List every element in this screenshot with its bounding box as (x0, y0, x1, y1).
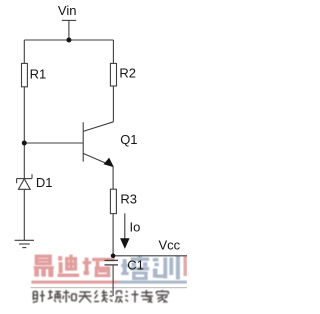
wire below C1 (112, 265, 114, 296)
svg-text:Io: Io (130, 220, 141, 235)
wire top bus (24, 39, 113, 41)
ground (15, 240, 34, 247)
wire Vin drop (68, 20, 70, 40)
wire R3 to output node (112, 214, 114, 256)
resistor R3 (110, 189, 116, 213)
watermark slogan char 天 (79, 292, 92, 303)
node dot Vin junction (66, 38, 71, 43)
capacitor C1 (105, 260, 119, 265)
svg-text:Vin: Vin (58, 3, 77, 18)
resistor R1 (22, 63, 28, 86)
wire right rail upper (112, 40, 114, 63)
watermark char 拓 (wide) (83, 258, 115, 278)
diode D1 (zener) (17, 174, 32, 189)
svg-text:Vcc: Vcc (159, 238, 181, 253)
svg-text:R3: R3 (120, 191, 137, 206)
watermark slogan char 射 (33, 291, 45, 303)
transistor Q1 (83, 122, 113, 167)
watermark slogan char 专 (141, 290, 153, 303)
wire left rail mid (23, 87, 25, 179)
watermark partial char at right edge (184, 256, 188, 276)
wire emitter vertical (112, 166, 114, 189)
watermark slogan char 家 (156, 290, 168, 303)
svg-text:C1: C1 (127, 257, 144, 272)
watermark slogan char 线 (94, 290, 108, 303)
watermark thin rule above slogan (31, 287, 188, 288)
watermark char 迪 (58, 255, 80, 277)
watermark char 训 (153, 256, 180, 280)
watermark underline pink (32, 281, 119, 284)
svg-text:R1: R1 (30, 66, 47, 81)
watermark slogan char 和 (63, 290, 76, 303)
wire diode to ground (23, 189, 25, 240)
svg-text:R2: R2 (119, 66, 136, 81)
svg-text:Q1: Q1 (120, 132, 137, 147)
Vin terminal bar (62, 19, 76, 21)
watermark char 培 (121, 256, 149, 281)
wire base (24, 142, 83, 144)
watermark slogan char 计 (125, 291, 139, 303)
current arrow Io head (120, 238, 130, 249)
watermark slogan char 设 (110, 291, 123, 303)
watermark slogan char 频 (48, 290, 61, 303)
wire Vcc rail (113, 255, 187, 257)
wire left rail upper (23, 40, 25, 63)
resistor R2 (110, 63, 116, 86)
watermark underline blue (119, 281, 188, 284)
node dot base junction (22, 141, 27, 146)
node dot output junction (111, 254, 116, 259)
current arrow Io line (124, 213, 126, 240)
svg-text:D1: D1 (36, 175, 53, 190)
watermark char 易 (34, 255, 54, 277)
wire collector vertical (112, 86, 114, 122)
